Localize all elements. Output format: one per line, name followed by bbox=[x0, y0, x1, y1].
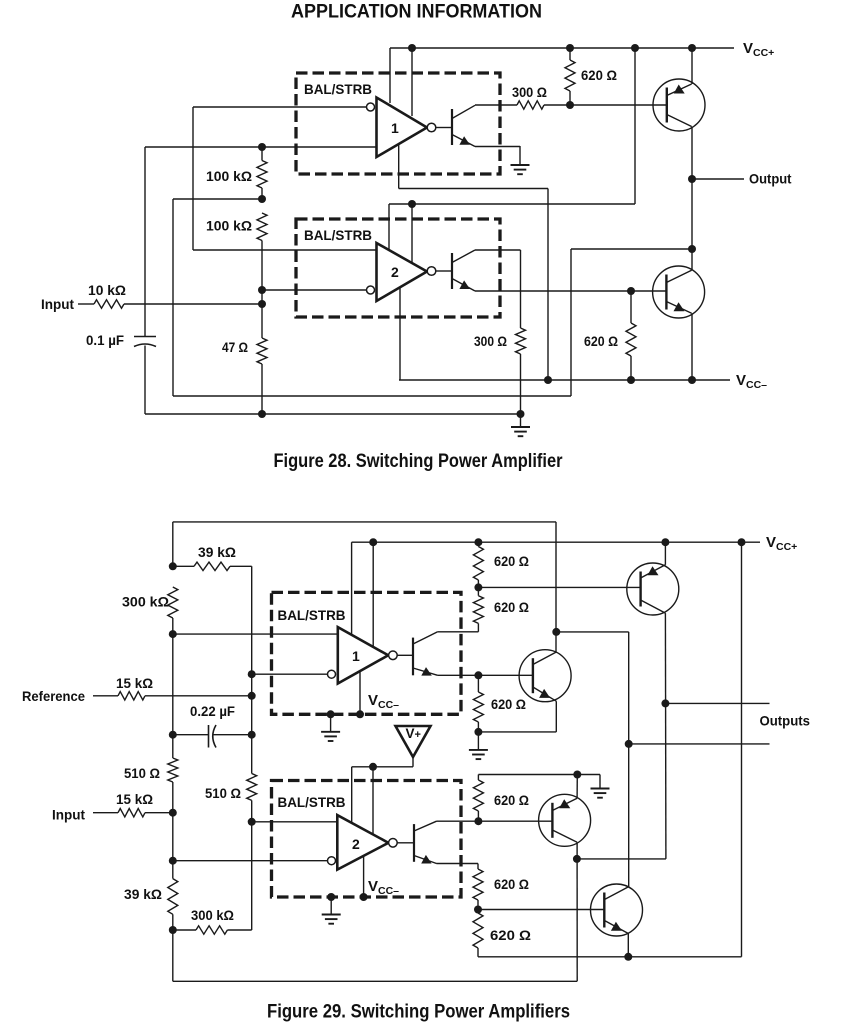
junction cap right bbox=[248, 731, 256, 739]
wire supply to comparator 2 pin A bbox=[388, 204, 390, 251]
arrow comp2 f29 emitter bbox=[421, 855, 431, 864]
comparator 1 dashed box bbox=[296, 73, 500, 174]
junction 47ohm at ground line bbox=[258, 410, 266, 418]
svg-text:1: 1 bbox=[391, 120, 399, 136]
wire comparator1 f29 noninverting input bbox=[173, 633, 338, 635]
junction V+ feed bbox=[369, 763, 377, 771]
op-amp comparator 1 f29 triangle bbox=[338, 627, 388, 683]
svg-text:620 Ω: 620 Ω bbox=[494, 553, 529, 569]
resistor 620 Ohm C bbox=[473, 692, 483, 722]
label 100 kOhm upper bbox=[206, 168, 252, 184]
junction Vminus pin box2 bbox=[360, 893, 368, 901]
ground comparator2 f29 bbox=[322, 897, 341, 924]
label V+ bbox=[406, 726, 421, 741]
wire comp1 f29 Vminus pin bbox=[359, 671, 361, 714]
wire 300 ohm 2 drop bbox=[520, 250, 522, 328]
wire comparator1 collector out bbox=[475, 104, 517, 106]
transistor comp1 f29 collector diagonal bbox=[413, 632, 438, 644]
transistor Q1 PNP bbox=[653, 79, 705, 131]
label 0.1 uF bbox=[86, 332, 124, 348]
junction Q2 emitter at VCC- bbox=[688, 376, 696, 384]
svg-text:15 kΩ: 15 kΩ bbox=[116, 791, 153, 807]
wire ground line bbox=[145, 413, 521, 415]
comparator 1 input bubble bbox=[367, 103, 375, 111]
arrow comparator2 emitter bbox=[459, 280, 470, 289]
arrow comp1 f29 emitter bbox=[421, 667, 432, 676]
junction 620C bottom bbox=[474, 728, 482, 736]
resistor 10 kOhm bbox=[94, 300, 124, 308]
wire comp2 f29 pinA bbox=[351, 767, 353, 836]
wire comp1 f29 pinB bbox=[372, 542, 374, 647]
arrow Q5 collector bbox=[559, 799, 570, 808]
junction outputs1 tap bbox=[661, 699, 669, 707]
label 620 Ohm B bbox=[494, 599, 529, 615]
resistor 620 Ohm mid bbox=[626, 323, 636, 356]
comparator 2 f29 dashed box bbox=[272, 781, 462, 898]
wire VCC+ to comparator 1 pin A bbox=[389, 48, 391, 103]
transistor Q5 collector diagonal bbox=[552, 798, 577, 810]
junction gnd pin box1 bbox=[327, 710, 335, 718]
junction Q3 emitter top bbox=[661, 538, 669, 546]
wire bubble to bar f29c1 bbox=[397, 654, 413, 656]
wire lower supply line bbox=[389, 203, 635, 205]
comparator2 f29 input bubble bbox=[328, 857, 336, 865]
wire gnd run Q5 bbox=[478, 774, 600, 776]
wire Q3 collector down bbox=[664, 613, 667, 859]
wire supply to comparator 2 pin B bbox=[411, 204, 413, 264]
wire branch drop x628 bbox=[628, 632, 630, 887]
wire Q1 emitter to rail bbox=[691, 48, 693, 84]
resistor 15 kOhm lower f29 bbox=[118, 809, 145, 817]
junction on VCC+ rail at strobe pin bbox=[408, 44, 416, 52]
junction Q5 collector bbox=[573, 771, 581, 779]
junction on VCC+ rail at Q1 emitter bbox=[688, 44, 696, 52]
transistor Q6 collector diagonal bbox=[605, 887, 629, 900]
capacitor 0.1uF bbox=[134, 337, 156, 347]
resistor 300 kOhm lower f29 bbox=[196, 926, 227, 934]
svg-text:620 Ω: 620 Ω bbox=[494, 792, 529, 808]
transistor Q5 bbox=[539, 794, 591, 846]
svg-text:BAL/STRB: BAL/STRB bbox=[304, 81, 372, 97]
wire 620D bottom stub bbox=[477, 811, 479, 821]
wire reference to x252 bbox=[145, 695, 252, 697]
svg-text:Outputs: Outputs bbox=[760, 713, 811, 729]
label 510 Ohm left bbox=[124, 765, 160, 781]
label Output bbox=[749, 171, 792, 187]
wire Q6 emitter down bbox=[627, 934, 629, 957]
label Input bbox=[41, 296, 74, 312]
wire V+ stem bbox=[412, 757, 414, 767]
svg-text:2: 2 bbox=[391, 264, 399, 280]
label Reference bbox=[22, 688, 85, 704]
comparator 2 dashed box bbox=[296, 219, 500, 317]
svg-text:300 kΩ: 300 kΩ bbox=[122, 594, 169, 610]
wire VCC+ rail bbox=[390, 47, 734, 49]
wire 100k chain bbox=[261, 146, 263, 338]
wire comp2 f29 pinB bbox=[372, 767, 374, 847]
wire V+ feed run bbox=[352, 766, 413, 768]
wire Q1 collector to output bbox=[691, 127, 693, 250]
arrow comparator1 emitter bbox=[459, 136, 470, 145]
label BAL/STRB f29 box1 bbox=[278, 607, 346, 623]
junction on VCC+ rail at feed-down bbox=[631, 44, 639, 52]
junction Q6 emitter bottom bbox=[624, 953, 632, 961]
junction feedback at Q2 collector bbox=[688, 245, 696, 253]
wire comp2 f29 emitter out bbox=[437, 863, 479, 865]
transistor comp1 f29 emitter diagonal bbox=[413, 668, 438, 675]
wire 47 ohm to ground line bbox=[261, 364, 263, 414]
resistor 300 kOhm upper f29 bbox=[168, 587, 178, 618]
resistor 620 Ohm D bbox=[473, 780, 483, 811]
label 620 Ohm E bbox=[494, 876, 529, 892]
wire comp2 f29 Vminus pin bbox=[363, 856, 365, 897]
wire Q5 emitter down bbox=[576, 842, 578, 981]
transistor comp2 f29 emitter diagonal bbox=[414, 856, 437, 864]
ground comparator1 f29 bbox=[321, 714, 340, 741]
wire left column x173 bbox=[172, 522, 174, 981]
resistor 300 Ohm upper bbox=[517, 101, 544, 109]
transistor Q3 emitter diagonal bbox=[641, 565, 666, 578]
junction 620A top bbox=[474, 538, 482, 546]
wire Q2 emitter down bbox=[691, 313, 693, 380]
junction reference at x252 bbox=[248, 692, 256, 700]
svg-text:300 Ω: 300 Ω bbox=[512, 84, 547, 100]
svg-text:BAL/STRB: BAL/STRB bbox=[278, 794, 346, 810]
wire left riser to comparator 2 noninverting input bbox=[192, 107, 194, 250]
ground comparator 1 emitter bbox=[511, 146, 530, 174]
label 300 kOhm upper bbox=[122, 594, 169, 610]
wire 620AB mid stub bbox=[477, 580, 479, 596]
wire 300k lower to x252 bbox=[227, 929, 251, 931]
junction comp1 +in tap bbox=[169, 630, 177, 638]
wire comparator 1 noninverting input bbox=[145, 146, 376, 148]
wire cap left lead bbox=[173, 734, 209, 736]
resistor 620 Ohm A bbox=[473, 547, 483, 581]
comparator 1 f29 dashed box bbox=[272, 592, 462, 714]
label 47 Ohm bbox=[222, 339, 248, 355]
resistor 39 kOhm lower f29 bbox=[168, 879, 178, 915]
label 100 kOhm lower bbox=[206, 218, 252, 234]
junction 300k lower tap bbox=[169, 926, 177, 934]
op-amp comparator 2 triangle bbox=[377, 243, 428, 301]
ground Q5 collector run bbox=[591, 775, 610, 798]
wire comparator 2 inverting input bbox=[262, 289, 367, 291]
junction Vminus pin box1 bbox=[356, 710, 364, 718]
wire Q5 collector up bbox=[576, 775, 578, 799]
wire strobe drop x556 bbox=[555, 522, 557, 652]
title APPLICATION INFORMATION bbox=[291, 2, 542, 23]
wire cap right lead bbox=[214, 734, 252, 736]
label BAL/STRB box1 bbox=[304, 81, 372, 97]
ground 620C bbox=[469, 732, 488, 759]
transistor comp1 f29 bar bbox=[412, 638, 414, 676]
resistor 15 kOhm upper f29 bbox=[118, 692, 145, 700]
wire Q2 collector up bbox=[691, 249, 693, 270]
caption figure 29 bbox=[267, 1002, 570, 1023]
wire comp1 f29 collector out bbox=[438, 631, 479, 633]
svg-text:47 Ω: 47 Ω bbox=[222, 339, 248, 355]
svg-text:39 kΩ: 39 kΩ bbox=[198, 544, 236, 560]
arrow Q3 emitter bbox=[648, 566, 659, 575]
junction comparator 2 inverting tap bbox=[258, 286, 266, 294]
label Outputs bbox=[760, 713, 811, 729]
transistor comparator1 collector diagonal bbox=[452, 105, 475, 118]
label digit 2 bbox=[391, 264, 399, 280]
comparator 1 output bubble bbox=[427, 123, 436, 132]
resistor 620 Ohm E bbox=[473, 869, 483, 900]
junction input tap f29 bbox=[169, 809, 177, 817]
junction right drop top bbox=[738, 538, 746, 546]
wire Q4 emitter run bbox=[478, 731, 556, 733]
junction gnd pin box2 bbox=[327, 893, 335, 901]
transistor comparator2 collector diagonal bbox=[452, 250, 475, 263]
junction 300-2 at ground line bbox=[517, 410, 525, 418]
resistor 620 Ohm B bbox=[473, 596, 483, 624]
wire output stub bbox=[692, 178, 744, 180]
comparator2 f29 output bubble bbox=[389, 839, 398, 848]
wire feedback top run bbox=[571, 248, 692, 250]
label 620 Ohm F bbox=[490, 927, 531, 943]
resistor 300 Ohm lower bbox=[516, 328, 526, 354]
svg-text:APPLICATION INFORMATION: APPLICATION INFORMATION bbox=[291, 2, 542, 23]
transistor Q5 emitter diagonal bbox=[552, 830, 577, 842]
wire bottom rail f29 bbox=[173, 980, 577, 982]
svg-text:0.1 µF: 0.1 µF bbox=[86, 332, 124, 348]
label 300 Ohm upper bbox=[512, 84, 547, 100]
ground main fig28 bbox=[511, 414, 530, 436]
svg-text:10 kΩ: 10 kΩ bbox=[88, 282, 126, 298]
transistor Q6 emitter diagonal bbox=[605, 921, 629, 934]
wire comparator 2 noninverting input bbox=[193, 249, 376, 251]
wire comparator1 strobe drop bbox=[547, 189, 549, 381]
transistor comparator1 output bar bbox=[451, 109, 453, 145]
junction 100k midpoint bbox=[258, 195, 266, 203]
wire 620-2 stubs bbox=[630, 291, 632, 380]
wire Q6 base run bbox=[478, 909, 605, 911]
wire 620 top stub bbox=[569, 48, 571, 105]
svg-text:620 Ω: 620 Ω bbox=[584, 333, 618, 349]
label 620 Ohm C bbox=[491, 696, 526, 712]
svg-text:0.22 µF: 0.22 µF bbox=[190, 703, 235, 719]
junction 100k top bbox=[258, 143, 266, 151]
svg-text:15 kΩ: 15 kΩ bbox=[116, 675, 153, 691]
wire output bubble2 to base bbox=[436, 270, 452, 272]
resistor 620 Ohm upper bbox=[565, 60, 575, 91]
wire 620E top corner bbox=[477, 864, 479, 870]
label 620 Ohm D bbox=[494, 792, 529, 808]
transistor Q1 emitter diagonal bbox=[667, 84, 692, 96]
wire comparator1 strobe run bbox=[399, 188, 548, 190]
svg-text:510 Ω: 510 Ω bbox=[124, 765, 160, 781]
transistor Q2 NPN bbox=[653, 266, 705, 318]
svg-text:620 Ω: 620 Ω bbox=[491, 696, 526, 712]
junction comp1 -in tap x252 bbox=[248, 670, 256, 678]
label VCC- bbox=[736, 372, 767, 391]
wire comparator2 collector out bbox=[475, 249, 521, 251]
wire comparator2 f29 noninverting input bbox=[252, 821, 338, 823]
wire comparator 1 inverting input bbox=[193, 106, 367, 108]
wire input to column f29 bbox=[145, 812, 173, 814]
wire comparator2 emitter to Q2 base bbox=[475, 290, 667, 292]
comparator 2 output bubble bbox=[427, 267, 436, 276]
wire input to divider bbox=[124, 303, 262, 305]
junction 39k top bbox=[169, 562, 177, 570]
label 15 kOhm upper bbox=[116, 675, 153, 691]
arrow Q1 emitter bbox=[674, 85, 685, 94]
label 39 kOhm lower bbox=[124, 886, 162, 902]
junction on VCC+ rail at 620 ohm bbox=[566, 44, 574, 52]
junction 620AB mid bbox=[474, 583, 482, 591]
wire VCC+ return line bbox=[478, 956, 742, 958]
wire 620B bottom corner bbox=[477, 623, 479, 631]
wire 620F bottom corner bbox=[477, 948, 479, 957]
svg-text:620 Ω: 620 Ω bbox=[490, 927, 531, 943]
resistor 47 Ohm bbox=[257, 338, 267, 364]
power V+ symbol bbox=[396, 726, 431, 757]
junction Q5 emitter link bbox=[573, 855, 581, 863]
junction Q6 base node bbox=[474, 906, 482, 914]
wire 300k lower left lead bbox=[173, 929, 196, 931]
transistor Q6 bbox=[591, 884, 643, 936]
label 620 Ohm A bbox=[494, 553, 529, 569]
label 300 kOhm lower bbox=[191, 907, 234, 923]
junction outputs2 tap bbox=[625, 740, 633, 748]
transistor Q1 collector diagonal bbox=[667, 115, 692, 127]
wire input lead f29 bbox=[93, 812, 118, 814]
svg-text:39 kΩ: 39 kΩ bbox=[124, 886, 162, 902]
transistor comparator2 emitter diagonal bbox=[452, 279, 475, 292]
wire left riser x145 to capacitor bbox=[144, 147, 146, 336]
transistor Q3 bbox=[627, 563, 679, 615]
label 15 kOhm lower bbox=[116, 791, 153, 807]
wire VCC+ rail f29 bbox=[352, 541, 760, 543]
junction comp2 -in tap bbox=[169, 857, 177, 865]
label 300 Ohm lower bbox=[474, 333, 507, 349]
svg-text:300 Ω: 300 Ω bbox=[474, 333, 507, 349]
wire VCC+ to comparator 1 pin B bbox=[411, 48, 413, 116]
transistor Q2 emitter diagonal bbox=[666, 302, 691, 314]
resistor 39 kOhm upper f29 bbox=[194, 562, 230, 570]
wire 620C stubs bbox=[477, 675, 479, 732]
transistor Q3 collector diagonal bbox=[641, 600, 666, 613]
label 39 kOhm upper bbox=[198, 544, 236, 560]
wire Q4 emitter drop bbox=[555, 701, 557, 732]
wire comp2 f29 collector out / Q5 base bbox=[437, 820, 553, 822]
transistor Q2 collector diagonal bbox=[666, 270, 691, 282]
svg-text:Input: Input bbox=[52, 807, 85, 823]
label VCC- box2 f29 bbox=[368, 878, 399, 897]
wire comparator1 f29 inverting input bbox=[252, 673, 328, 675]
wire outputs line 2 bbox=[629, 743, 770, 745]
label VCC+ bbox=[743, 40, 774, 59]
label 10 kOhm bbox=[88, 282, 126, 298]
label 620 Ohm mid bbox=[584, 333, 618, 349]
arrow Q2 emitter bbox=[674, 302, 685, 311]
label 620 Ohm upper bbox=[581, 67, 617, 83]
junction 620 bottom bbox=[566, 101, 574, 109]
transistor Q4 emitter diagonal bbox=[533, 687, 556, 701]
svg-text:300 kΩ: 300 kΩ bbox=[191, 907, 234, 923]
comparator 2 input bubble bbox=[367, 286, 375, 294]
label Input f29 bbox=[52, 807, 85, 823]
junction 620C top bbox=[474, 671, 482, 679]
svg-text:620 Ω: 620 Ω bbox=[494, 599, 529, 615]
wire Q3 base run bbox=[478, 586, 640, 588]
capacitor 0.22uF f29 bbox=[209, 725, 217, 748]
wire Q3 collector to Q5 emitter bbox=[577, 858, 666, 860]
svg-text:100 kΩ: 100 kΩ bbox=[206, 168, 252, 184]
wire bubble to bar f29c2 bbox=[397, 842, 414, 844]
label digit 2 f29 bbox=[352, 836, 360, 852]
wire feedback riser x173 bbox=[172, 199, 174, 396]
wire reference lead bbox=[93, 695, 118, 697]
caption figure 28 bbox=[274, 451, 564, 472]
label digit 1 bbox=[391, 120, 399, 136]
wire comparator2 strobe stem bbox=[399, 287, 401, 380]
resistor 510 Ohm mid f29 bbox=[247, 774, 257, 801]
wire input lead bbox=[78, 303, 94, 305]
label VCC- box1 f29 bbox=[368, 692, 399, 711]
wire feedback tap bbox=[173, 198, 262, 200]
op-amp comparator 2 f29 triangle bbox=[337, 815, 388, 870]
arrow Q4 emitter bbox=[539, 689, 550, 698]
wire 620A top stub bbox=[477, 542, 479, 546]
resistor 100 kOhm lower bbox=[257, 213, 267, 241]
wire feedback bottom run bbox=[173, 395, 571, 397]
wire x252 riser bbox=[251, 566, 253, 930]
junction input node bbox=[258, 300, 266, 308]
svg-text:BAL/STRB: BAL/STRB bbox=[304, 227, 372, 243]
junction cap left bbox=[169, 731, 177, 739]
junction Q4 collector node bbox=[552, 628, 560, 636]
transistor Q4 collector diagonal bbox=[533, 652, 556, 665]
resistor 100 kOhm upper bbox=[257, 161, 267, 189]
wire feedback drop bbox=[570, 249, 572, 396]
wire top strobe rail f29 bbox=[173, 521, 556, 523]
transistor Q4 bbox=[519, 650, 571, 702]
wire VCC- rail bbox=[399, 379, 730, 381]
junction comp1 pinB top bbox=[369, 538, 377, 546]
svg-text:1: 1 bbox=[352, 648, 360, 664]
svg-text:Input: Input bbox=[41, 296, 74, 312]
transistor comp2 f29 collector diagonal bbox=[414, 821, 437, 831]
svg-text:100 kΩ: 100 kΩ bbox=[206, 218, 252, 234]
label VCC+ f29 bbox=[766, 534, 797, 553]
wire comparator1 emitter to ground bbox=[475, 146, 520, 148]
svg-text:620 Ω: 620 Ω bbox=[494, 876, 529, 892]
svg-text:Output: Output bbox=[749, 171, 792, 187]
junction supply line bbox=[408, 200, 416, 208]
wire 39k to x252 bbox=[173, 565, 252, 567]
wire 300 ohm 2 to ground line bbox=[520, 354, 522, 414]
wire comp1 f29 pinA bbox=[351, 542, 353, 635]
junction output node bbox=[688, 175, 696, 183]
wire outputs line 1 bbox=[665, 702, 769, 704]
svg-text:2: 2 bbox=[352, 836, 360, 852]
svg-text:Reference: Reference bbox=[22, 688, 85, 704]
svg-text:620 Ω: 620 Ω bbox=[581, 67, 617, 83]
wire VCC+ feed down to lower supply line bbox=[634, 48, 636, 204]
wire comparator1 strobe stem bbox=[398, 144, 400, 189]
wire 620EF stubs bbox=[477, 900, 479, 913]
wire Q4 collector branch bbox=[556, 631, 628, 633]
wire output bubble to transistor base bbox=[436, 127, 452, 129]
wire 300 ohm to Q1 base bbox=[544, 104, 667, 106]
resistor 510 Ohm left f29 bbox=[168, 758, 178, 782]
wire right VCC+ drop bbox=[741, 542, 743, 957]
label digit 1 f29 bbox=[352, 648, 360, 664]
junction 620-2 at VCC- bbox=[627, 376, 635, 384]
